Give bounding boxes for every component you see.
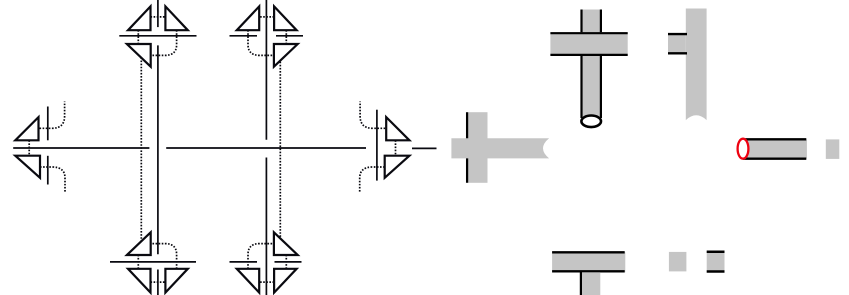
rod assembly: far right square rod section (826, 139, 840, 159)
dotted pair link TR (259, 16, 274, 18)
dotted control stub BL (137, 255, 139, 269)
buffer triangle BR-B (237, 269, 259, 293)
rod assembly: top cross, rod left edge (580, 10, 582, 119)
rod assembly: top cross, bar top edge (550, 32, 627, 34)
buffer triangle BL-A (128, 269, 151, 293)
rod assembly: bottom plain square rod section (669, 252, 687, 272)
buffer triangle R-B (385, 156, 410, 178)
rod assembly: bottom T bar top edge (552, 251, 625, 253)
buffer triangle TR-B (237, 6, 259, 30)
dotted pair link BR (259, 281, 274, 283)
dotted control curve BR (248, 244, 274, 269)
rod assembly: bottom T bar (552, 252, 625, 272)
rod assembly: top-right stub top edge (668, 33, 687, 35)
rod assembly: bottom T stem left edge (580, 271, 582, 295)
top-right port bus bar, left piece (230, 35, 258, 37)
dotted control curve TL (151, 30, 177, 55)
buffer triangle TR-A (274, 6, 297, 30)
dotted control curve TR (248, 30, 274, 55)
bottom-left port bus bar (110, 261, 196, 263)
rod assembly: top cross, horizontal bar (550, 32, 627, 56)
buffer triangle BL-B (165, 269, 187, 293)
dotted pair link R (395, 140, 397, 155)
wire: vertical net 1, top stub (157, 0, 159, 27)
rod assembly: bottom outlined square rod section (707, 251, 725, 273)
buffer triangle TR-C (274, 44, 298, 67)
wire: vertical net 2, lower run (265, 158, 267, 295)
left port bar, bottom piece (47, 156, 49, 185)
dotted control curl R-bottom (360, 167, 385, 193)
rod assembly: bottom T stem (582, 272, 601, 295)
buffer triangle BR-C (274, 232, 298, 255)
buffer triangle BL-C (127, 232, 151, 255)
dotted control curl L-bottom (40, 167, 65, 193)
right port bus stub (412, 147, 437, 149)
buffer triangle L-A (15, 117, 38, 140)
wire: vertical net 2, upper run (265, 0, 267, 140)
rod assembly: bottom outlined square bottom edge (707, 270, 725, 273)
dotted pair link TL (151, 16, 166, 18)
bottom-right port bus bar, left piece (230, 261, 258, 263)
dotted control curve BL (151, 244, 177, 269)
buffer triangle TL-A (128, 6, 151, 30)
rod assembly: top-right stub bar (668, 33, 686, 54)
right port bar (376, 110, 378, 181)
dotted control stub BR (285, 255, 287, 269)
buffer triangle L-B (15, 156, 40, 178)
rod assembly: top cross, open tube end ellipse (581, 116, 601, 128)
buffer triangle BR-A (274, 269, 297, 293)
rod assembly: top cross, rod right edge (600, 10, 602, 119)
dotted pair link BL (151, 281, 166, 283)
left port bar, top piece (47, 107, 49, 141)
wire: vertical net 1, bottom stub (157, 270, 159, 295)
rod assembly: top cross, bar bottom edge (550, 54, 627, 56)
rod assembly: bottom outlined square top edge (707, 251, 725, 254)
bottom-right port bus bar, right piece (275, 261, 302, 263)
buffer triangle TL-C (127, 44, 151, 67)
rod assembly: highlighted cylinder red end face (738, 139, 749, 159)
rod assembly: bottom T bar bottom edge (552, 270, 625, 272)
rod assembly: highlighted cylinder top edge (743, 138, 806, 140)
control line: long dotted vertical (right) (279, 62, 281, 238)
rod assembly: left cross, vertical rod (466, 112, 488, 183)
buffer triangle TL-B (165, 6, 187, 30)
wire: horizontal net, left segment (13, 147, 149, 149)
dotted control stub TL (137, 30, 139, 44)
rod assembly: top-right stub bottom edge (668, 52, 687, 54)
rod assembly: top cross, vertical rod body (582, 10, 601, 119)
rod assembly: left cross, black left edge (466, 112, 468, 183)
wire: vertical net 1, main run (157, 45, 159, 254)
rod assembly: top-right vertical rod with notched bottom (686, 9, 707, 121)
wire: horizontal net, right segment (166, 147, 366, 149)
dotted control stub TR (285, 30, 287, 44)
dotted control curl R-top (360, 102, 385, 129)
dotted control curl L-top (40, 102, 65, 129)
dotted pair link L (28, 140, 30, 155)
rod assembly: highlighted cylinder bottom edge (743, 157, 806, 159)
buffer triangle R-A (386, 117, 409, 140)
rod assembly: left cross, horizontal rod with notched end (451, 138, 549, 158)
control line: long dotted vertical (left) (140, 57, 142, 241)
rod assembly: highlighted cylinder body (741, 140, 807, 159)
top-left port bus bar (119, 35, 196, 37)
top-right port bus bar, right piece (276, 35, 303, 37)
